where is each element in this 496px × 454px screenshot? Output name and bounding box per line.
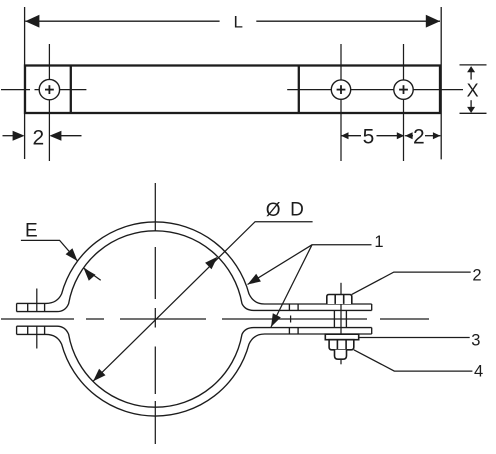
svg-text:D: D: [290, 200, 304, 221]
svg-text:E: E: [25, 221, 38, 242]
svg-text:4: 4: [474, 362, 483, 380]
svg-text:2: 2: [33, 127, 45, 150]
svg-text:Ø: Ø: [266, 200, 281, 221]
svg-text:3: 3: [471, 332, 480, 350]
svg-text:X: X: [467, 80, 479, 100]
svg-text:1: 1: [374, 233, 383, 251]
svg-text:L: L: [233, 13, 242, 32]
svg-text:2: 2: [472, 267, 481, 285]
svg-text:5: 5: [363, 126, 375, 149]
svg-text:2: 2: [413, 126, 425, 149]
